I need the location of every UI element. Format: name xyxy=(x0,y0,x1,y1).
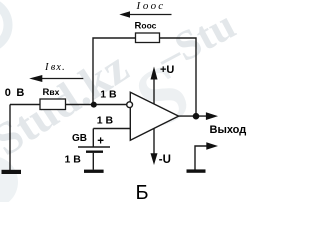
wire: battery to ground xyxy=(92,153,94,170)
svg-text:0 В: 0 В xyxy=(5,87,26,99)
current arrow Ivx xyxy=(29,62,83,82)
svg-text:1 В: 1 В xyxy=(100,89,117,101)
svg-text:Rвх: Rвх xyxy=(43,87,60,98)
current arrow Iooc xyxy=(119,0,171,18)
wire: left vertical to ground xyxy=(9,105,11,171)
node A (inverting input junction) xyxy=(91,102,97,108)
power +U arrow xyxy=(151,64,175,104)
op-amp U1 xyxy=(127,92,179,140)
svg-text:Б: Б xyxy=(136,182,149,202)
ground (input) xyxy=(2,170,22,174)
ground (load) xyxy=(187,169,206,172)
node: output junction xyxy=(193,113,200,120)
svg-text:GB: GB xyxy=(72,133,87,144)
ground (battery) xyxy=(84,170,104,173)
wire: input from 0V node through Rvx to inverting input xyxy=(10,104,93,106)
load branch: arrow from ground xyxy=(195,142,218,169)
battery GB xyxy=(65,133,111,166)
svg-text:1 В: 1 В xyxy=(65,153,82,165)
svg-text:1 В: 1 В xyxy=(97,115,114,127)
svg-text:Rоос: Rоос xyxy=(135,20,157,31)
output arrow xyxy=(206,112,218,120)
watermark xyxy=(0,1,243,208)
svg-text:Выход: Выход xyxy=(210,124,247,136)
svg-text:-U: -U xyxy=(159,154,171,166)
wire: feedback loop top xyxy=(93,38,196,116)
wire: output xyxy=(179,115,207,117)
resistor Rooc xyxy=(135,20,160,42)
svg-text:+: + xyxy=(97,136,104,148)
wire: non-inverting input from battery xyxy=(93,128,130,130)
svg-text:+U: +U xyxy=(160,64,174,76)
resistor Rvx xyxy=(40,87,66,110)
power -U arrow xyxy=(151,128,171,166)
svg-text:Iоос: Iоос xyxy=(136,0,166,12)
svg-text:Iвх.: Iвх. xyxy=(44,62,66,73)
